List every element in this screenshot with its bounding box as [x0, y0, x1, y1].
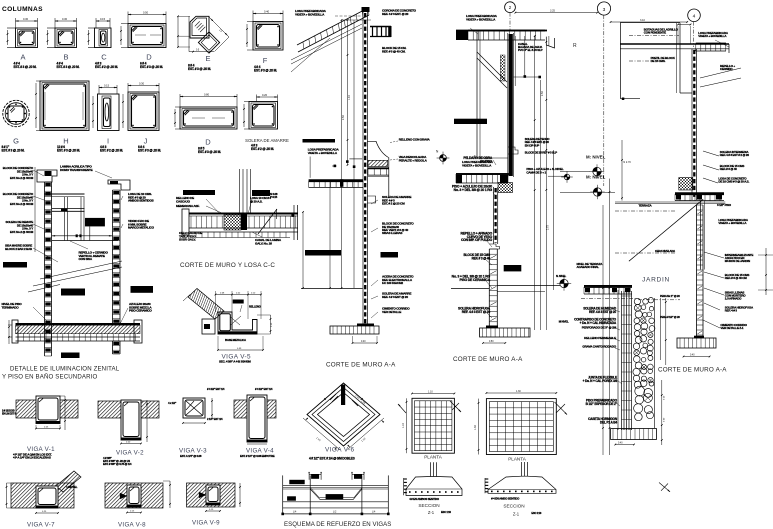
svg-text:DOMO TRANSPARENTE: DOMO TRANSPARENTE	[60, 168, 93, 172]
svg-text:REF. # 3 @ 40 CM.: REF. # 3 @ 40 CM.	[382, 49, 406, 53]
svg-text:GRAVA CANTO RODADO: GRAVA CANTO RODADO	[582, 345, 616, 349]
svg-text:REF. 4 # 3 EST. @ 20: REF. 4 # 3 EST. @ 20	[382, 12, 409, 16]
svg-text:EST. # 3 @ .20 M.: EST. # 3 @ .20 M.	[57, 65, 80, 69]
svg-text:ESC 1:10: ESC 1:10	[531, 511, 542, 515]
svg-text:CON SISA: CON SISA	[79, 257, 93, 261]
svg-text:VIGETA + BOVEDILLA: VIGETA + BOVEDILLA	[308, 151, 338, 155]
seccion Z-1 (2)	[485, 462, 670, 516]
svg-text:VIGA V-2: VIGA V-2	[116, 449, 144, 456]
column J	[122, 82, 161, 153]
wall 1 main wall	[362, 7, 370, 326]
svg-text:REF. 4 # 3: REF. 4 # 3	[725, 309, 738, 313]
jardin right dims	[655, 249, 680, 365]
svg-text:PESA # 1/2" @ 20: PESA # 1/2" @ 20	[660, 315, 680, 319]
svg-text:EST. # 3 @ .20 M.: EST. # 3 @ .20 M.	[188, 67, 211, 71]
svg-text:VIGETA + BOVEDILLA: VIGETA + BOVEDILLA	[718, 221, 747, 225]
svg-text:1.10: 1.10	[428, 390, 433, 393]
wall 3 right edge dim	[758, 248, 773, 295]
column SOLERA DE AMARRE	[243, 93, 289, 151]
grid bubbles	[505, 2, 701, 186]
wall 3 terrace floor	[615, 178, 725, 262]
svg-text:CORTE DE MURO Y LOSA C-C: CORTE DE MURO Y LOSA C-C	[180, 262, 275, 269]
svg-text:1.30: 1.30	[474, 425, 477, 430]
svg-text:CON IMP. C/F PULIDO: CON IMP. C/F PULIDO	[461, 238, 493, 242]
svg-text:B 1/2" ESPESOR DE 2": B 1/2" ESPESOR DE 2"	[586, 402, 618, 406]
svg-text:PISO CERAMICO: PISO CERAMICO	[129, 309, 152, 313]
svg-text:PISO DE CERAMICA: PISO DE CERAMICA	[459, 278, 490, 282]
svg-text:EST. No.2 @ 40CM: EST. No.2 @ 40CM	[10, 202, 34, 206]
svg-text:3: 3	[603, 7, 606, 13]
svg-text:3.25: 3.25	[550, 10, 555, 13]
viga V-5	[183, 289, 273, 364]
wall 3 parapet top-left	[620, 23, 692, 100]
wall 1 left floor slab	[270, 139, 363, 219]
detalle iluminacion: beams and interior	[44, 165, 118, 261]
viga V-4	[234, 387, 276, 458]
svg-text:EST. # 3 @ .20 M.: EST. # 3 @ .20 M.	[2, 149, 25, 153]
svg-text:0.40: 0.40	[264, 10, 270, 14]
svg-text:M NIVEL: M NIVEL	[559, 319, 569, 323]
svg-text:D: D	[205, 138, 211, 147]
svg-text:P 3.15: P 3.15	[270, 195, 278, 199]
detalle iluminacion: right wall	[108, 180, 130, 354]
svg-text:ESC 1:10: ESC 1:10	[441, 510, 452, 514]
wall 3 lower right annotations	[703, 252, 754, 330]
wall 1 ground and bars	[301, 182, 398, 289]
svg-text:VIGETA + BOVEDILLA: VIGETA + BOVEDILLA	[295, 12, 325, 16]
viga V-6	[303, 383, 384, 461]
corte muro y losa C-C	[182, 169, 298, 240]
column F	[246, 10, 283, 73]
wall 1 mid slab right (viga descolgada)	[346, 137, 439, 196]
svg-text:BLOCK DE 15 REF # 3 SLP: BLOCK DE 15 REF # 3 SLP	[525, 150, 557, 154]
svg-text:2 1/4" EST 1/4: 2 1/4" EST 1/4	[207, 417, 223, 421]
svg-text:1.30: 1.30	[516, 390, 521, 393]
svg-text:CORTE DE MURO A-A: CORTE DE MURO A-A	[453, 356, 523, 363]
svg-text:B: B	[63, 53, 68, 62]
svg-text:Z-1: Z-1	[513, 511, 520, 516]
svg-text:VIGETA + BOVEDILLA: VIGETA + BOVEDILLA	[466, 17, 496, 21]
viga V-8	[105, 481, 171, 528]
wall 1 footing	[330, 324, 379, 344]
wall 3 title	[658, 367, 727, 374]
planta 2	[474, 390, 567, 462]
svg-text:EST. # 3 @ .20 M.: EST. # 3 @ .20 M.	[140, 65, 163, 69]
svg-text:VIGA V-9: VIGA V-9	[192, 520, 220, 527]
svg-text:EST. # 3 @ .20 M.: EST. # 3 @ .20 M.	[14, 65, 37, 69]
column D	[120, 11, 166, 70]
wall 3 lower wall	[697, 201, 705, 338]
detalle: right annotations	[2, 192, 155, 324]
svg-text:EST. # 2 @ 20 CM: EST. # 2 @ 20 CM	[382, 202, 405, 206]
svg-text:Y PISO EN BAÑO SECUNDARIO: Y PISO EN BAÑO SECUNDARIO	[2, 374, 98, 381]
svg-text:EST. # 2 @ .20 M.: EST. # 2 @ .20 M.	[251, 147, 274, 151]
wall 3 mid annotations right	[703, 150, 749, 225]
wall 3 nivel dims left	[577, 140, 632, 455]
svg-text:N. NIVEL: N. NIVEL	[556, 274, 567, 278]
seccion Z-1 (1)	[404, 462, 462, 515]
svg-text:SECCION: SECCION	[503, 504, 524, 509]
svg-text:A: A	[20, 53, 25, 62]
svg-text:M: NIVEL: M: NIVEL	[586, 155, 606, 160]
jardin slab	[581, 253, 680, 300]
column D wide	[174, 93, 237, 155]
svg-text:SUSP. GALV.: SUSP. GALV.	[179, 238, 196, 242]
jardin wall (striped)	[618, 290, 632, 430]
column B	[47, 17, 80, 69]
wall 1 dims left	[341, 19, 371, 289]
wall 2 annotations top	[466, 14, 577, 52]
wall 2 gutter at roof end	[546, 36, 554, 48]
svg-text:SECCION: SECCION	[418, 503, 439, 508]
svg-text:EST. No.2 @ 40CM: EST. No.2 @ 40CM	[10, 230, 34, 234]
svg-text:CAMA DE 3 + 1: CAMA DE 3 + 1	[526, 170, 546, 174]
svg-text:PERALTE + REGOLA: PERALTE + REGOLA	[399, 158, 428, 162]
svg-text:EST. A 1/4" @ 0.08: EST. A 1/4" @ 0.08	[180, 454, 202, 458]
esquema refuerzo en vigas	[281, 472, 391, 528]
svg-text:VIGETA + BOVEDILLA: VIGETA + BOVEDILLA	[698, 34, 727, 38]
svg-text:ACABADO FINAL: ACABADO FINAL	[577, 265, 600, 269]
svg-text:DEL P2 A B4: DEL P2 A B4	[600, 421, 617, 425]
svg-text:1.40: 1.40	[348, 95, 351, 100]
svg-text:0.30: 0.30	[139, 82, 145, 86]
svg-text:VIGETA + BOVEDILLA: VIGETA + BOVEDILLA	[462, 163, 492, 167]
wall 2 title	[453, 356, 523, 363]
corte C-C annotations	[176, 190, 282, 269]
column A	[7, 17, 38, 69]
svg-text:EST. # 3 @ .20 M.: EST. # 3 @ .20 M.	[254, 69, 277, 73]
svg-text:PLANTA: PLANTA	[424, 455, 442, 460]
svg-text:PVC 3" EL 3.70 SLP: PVC 3" EL 3.70 SLP	[518, 48, 543, 52]
svg-text:CON PENDIENTE: CON PENDIENTE	[644, 31, 666, 35]
svg-text:EST. No.2 @ 40CM: EST. No.2 @ 40CM	[10, 176, 34, 180]
viga V-7	[6, 471, 81, 528]
svg-text:0.40: 0.40	[690, 354, 695, 356]
svg-text:RELLENO: RELLENO	[249, 304, 262, 308]
svg-text:0.50: 0.50	[143, 11, 149, 15]
svg-text:BLOCK 2 BAR 2 BAR: BLOCK 2 BAR 2 BAR	[5, 247, 33, 251]
detalle iluminacion: left wall	[37, 170, 57, 356]
wall 1 title	[326, 362, 396, 369]
column I	[92, 84, 123, 153]
svg-text:0.30: 0.30	[62, 17, 68, 21]
svg-text:COLUMNAS: COLUMNAS	[2, 6, 43, 13]
svg-text:EST. # 3 @ .20 M.: EST. # 3 @ .20 M.	[57, 149, 80, 153]
svg-text:SEC. 4 3/8" A 4-B 30X40M: SEC. 4 3/8" A 4-B 30X40M	[219, 360, 251, 364]
title COLUMNAS	[2, 6, 43, 13]
svg-text:4 P A 1/4" EN LN ESCALERAS: 4 P A 1/4" EN LN ESCALERAS	[13, 456, 51, 460]
svg-text:EST. # 1/4" @ 0.08 EMPOTRE: EST. # 1/4" @ 0.08 EMPOTRE	[240, 454, 275, 458]
svg-text:1.10: 1.10	[402, 423, 405, 428]
svg-text:EST. # 3 @ .20 M.: EST. # 3 @ .20 M.	[198, 150, 221, 154]
svg-text:E: E	[205, 54, 210, 63]
svg-text:+ Da. N + CAL POREX 3/4: + Da. N + CAL POREX 3/4	[583, 379, 618, 383]
svg-text:0.40: 0.40	[618, 442, 623, 444]
svg-text:# 4 EN AMBO SENTIDO: # 4 EN AMBO SENTIDO	[491, 496, 520, 500]
svg-text:TERMINADO: TERMINADO	[2, 305, 20, 309]
svg-text:F: F	[263, 56, 268, 65]
svg-text:VIGA V-7: VIGA V-7	[27, 521, 55, 528]
wall 1 balcony slab	[370, 26, 392, 37]
svg-text:ESQUEMA DE REFUERZO EN VIGAS: ESQUEMA DE REFUERZO EN VIGAS	[284, 521, 391, 528]
svg-text:REF. 4 # 3 EST @ 20: REF. 4 # 3 EST @ 20	[462, 310, 491, 314]
svg-text:I: I	[107, 137, 109, 146]
wall 3 upper wall	[692, 49, 697, 200]
svg-text:MUROS DE JARDIN: MUROS DE JARDIN	[725, 259, 750, 263]
svg-text:REF. 4 # 3 EST # 2 @ 20: REF. 4 # 3 EST # 2 @ 20	[720, 153, 750, 157]
svg-text:EN C/P SUP: EN C/P SUP	[525, 143, 540, 147]
svg-text:EST. # 2 @ .20 M.: EST. # 2 @ .20 M.	[100, 149, 123, 153]
svg-text:REF. 4 # 3 EST @ 20: REF. 4 # 3 EST @ 20	[589, 310, 616, 314]
svg-text:0.20: 0.20	[262, 93, 268, 97]
svg-text:DE 15 CMS.: DE 15 CMS.	[651, 59, 666, 63]
svg-text:EST. # 3/8" @ 0.75 @ 1/4: EST. # 3/8" @ 0.75 @ 1/4	[103, 462, 132, 466]
svg-text:0.15: 0.15	[100, 17, 106, 21]
svg-text:BASE METALICA: BASE METALICA	[225, 338, 246, 342]
detalle title	[2, 366, 120, 381]
planta 1	[398, 390, 461, 459]
svg-text:R: R	[573, 43, 577, 49]
svg-text:REF. # 3 @ 40: REF. # 3 @ 40	[472, 257, 491, 261]
svg-text:H: H	[63, 137, 68, 146]
svg-text:REF. 4 # 3 EST @ 20: REF. 4 # 3 EST @ 20	[382, 295, 408, 299]
wall 1 roof slope	[291, 8, 369, 72]
svg-text:C: C	[101, 53, 107, 62]
jardin left annotations	[559, 307, 622, 425]
svg-text:JARDIN: JARDIN	[642, 277, 670, 284]
detalle: black bars	[3, 262, 153, 358]
svg-text:F.C 100 KG/CM2: F.C 100 KG/CM2	[382, 281, 403, 285]
svg-text:VIGA V-8: VIGA V-8	[118, 521, 146, 528]
wall 3 top annotations	[629, 28, 741, 88]
svg-text:CORTE DE MURO A-A: CORTE DE MURO A-A	[658, 367, 727, 374]
svg-text:MEMBRANA ASF.: MEMBRANA ASF.	[176, 204, 200, 208]
viga V-2	[98, 400, 159, 466]
svg-text:N 2.70: N 2.70	[623, 161, 631, 164]
svg-text:# 4 1/2" EST 1/4: # 4 1/2" EST 1/4	[207, 387, 225, 391]
wall 2 ground, marker	[451, 274, 571, 292]
wall 2 right mid annotations	[525, 137, 573, 183]
column G	[2, 100, 30, 152]
wall 2 roof slab	[456, 31, 547, 41]
svg-text:DE 10 CMS # 3 @ 20 A.S.: DE 10 CMS # 3 @ 20 A.S.	[718, 180, 749, 184]
svg-text:+ Da. N + CAL HIDRATADA: + Da. N + CAL HIDRATADA	[580, 321, 617, 325]
svg-text:AMBOS SENTIDOS: AMBOS SENTIDOS	[128, 199, 154, 203]
svg-text:D: D	[146, 53, 152, 62]
jardin stones	[633, 298, 655, 429]
svg-text:VER DETALLE Z-1: VER DETALLE Z-1	[720, 326, 743, 330]
svg-text:TERRAZA: TERRAZA	[639, 204, 653, 208]
svg-text:CORTE DE MURO A-A: CORTE DE MURO A-A	[326, 362, 396, 369]
nivel markers between walls	[560, 155, 615, 200]
svg-text:Z-1: Z-1	[428, 510, 435, 515]
svg-text:EN LN EST 8: EN LN EST 8	[2, 411, 16, 415]
svg-text:CERA NIVELADA: CERA NIVELADA	[655, 249, 675, 253]
wall 1 annotations	[295, 9, 487, 318]
svg-text:PLANTA: PLANTA	[508, 457, 526, 462]
svg-text:4: 4	[693, 14, 696, 20]
detalle: diagonals bottom-left	[28, 261, 122, 292]
svg-text:SOLERA DE AMARRE: SOLERA DE AMARRE	[245, 138, 289, 143]
svg-text:PESA Nx 1" @ 20: PESA Nx 1" @ 20	[660, 294, 680, 298]
svg-text:2.50: 2.50	[342, 115, 345, 120]
svg-text:4 # 1/2" EST. # 1/4 @ 0/M D: 4 # 1/2" EST. # 1/4 @ 0/M DOBLES	[309, 457, 356, 461]
svg-text:0.50: 0.50	[489, 341, 494, 343]
svg-text:4 # EN AMBOS SENTIDO: 4 # EN AMBOS SENTIDO	[409, 497, 440, 501]
wall 3 footing	[677, 336, 716, 358]
svg-text:2.70: 2.70	[547, 225, 550, 230]
jardin footing	[611, 380, 666, 445]
svg-text:0.80: 0.80	[204, 93, 210, 97]
svg-text:CASCAJO: CASCAJO	[176, 199, 191, 203]
svg-text:EST. # 2 @ .20 M.: EST. # 2 @ .20 M.	[95, 65, 118, 69]
svg-text:VER DETALLE: VER DETALLE	[382, 310, 401, 314]
svg-text:REF. # 3 @ 40: REF. # 3 @ 40	[720, 167, 737, 171]
svg-text:0.40: 0.40	[361, 341, 366, 343]
svg-text:4 x 1/2": 4 x 1/2"	[168, 401, 177, 405]
wall 2 footing	[480, 326, 530, 344]
column H	[35, 81, 89, 153]
svg-text:G: G	[13, 137, 19, 146]
wall 2 left annotations	[437, 152, 496, 318]
svg-text:0.15: 0.15	[104, 84, 110, 88]
column C	[88, 17, 118, 69]
wall 2 floor slab	[456, 160, 513, 192]
viga V-3	[168, 387, 225, 458]
wall 3 roof slab	[620, 24, 729, 53]
svg-text:RELLENO PERMEABLE: RELLENO PERMEABLE	[584, 336, 616, 340]
svg-text:2.50: 2.50	[541, 91, 544, 96]
svg-text:MARCO METALICO: MARCO METALICO	[128, 226, 155, 230]
svg-text:1:3 AFINADO: 1:3 AFINADO	[725, 297, 742, 301]
svg-text:EST. # 3 @ .20 M.: EST. # 3 @ .20 M.	[138, 149, 161, 153]
svg-text:# 4 1/2" EST 1/4: # 4 1/2" EST 1/4	[255, 387, 273, 391]
svg-text:SISAS LLENAS: SISAS LLENAS	[382, 231, 402, 235]
detalle iluminacion: slab	[8, 320, 142, 344]
svg-text:RELLENO CON GRAVA: RELLENO CON GRAVA	[399, 137, 431, 141]
wall 2 dim verticals	[513, 35, 553, 330]
svg-text:0.30: 0.30	[23, 17, 29, 21]
svg-text:= DINTEL: = DINTEL	[66, 485, 78, 489]
viga V-9	[187, 483, 241, 527]
wall 2 upper wall (solid)	[477, 31, 518, 177]
svg-text:3.10: 3.10	[640, 19, 645, 22]
svg-text:VIGA V-6: VIGA V-6	[325, 447, 355, 454]
svg-text:No. 3 + DEL 3/8 @ 20 1 RG: No. 3 + DEL 3/8 @ 20 1 RG	[454, 188, 493, 192]
svg-text:DETALLE DE ILUMINACION ZENITAL: DETALLE DE ILUMINACION ZENITAL	[10, 366, 120, 373]
svg-text:REF. # 3 @ 40 CM: REF. # 3 @ 40 CM	[725, 276, 747, 280]
viga V-1	[2, 396, 78, 460]
column E	[177, 15, 229, 71]
wall 2 lower wall	[489, 187, 521, 326]
svg-text:GALV. No. 26: GALV. No. 26	[255, 241, 272, 245]
svg-text:J: J	[144, 137, 148, 146]
svg-text:PERFORADO DE 3" @ 2M: PERFORADO DE 3" @ 2M	[582, 326, 617, 330]
detalle: left annotations	[3, 166, 58, 262]
svg-text:PC PISO: PC PISO	[480, 160, 492, 164]
